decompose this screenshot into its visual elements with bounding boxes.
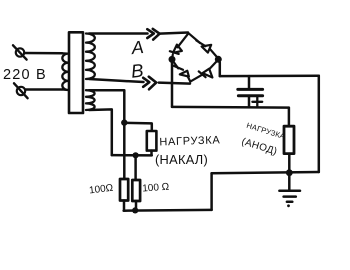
wire (y155 link) xyxy=(112,154,152,157)
wire (right branch down to R3) xyxy=(134,155,137,180)
wire A (upper secondary to bridge top) xyxy=(89,32,148,35)
secondary winding (upper) xyxy=(86,34,95,80)
junction (ground node) xyxy=(286,169,293,176)
ground xyxy=(279,173,300,208)
resistor R1 (heater load) xyxy=(147,131,157,151)
wire (R4 bottom lead) xyxy=(288,154,291,173)
resistor R3 (100 ohm right) xyxy=(132,180,140,201)
junction (bridge left node, DC+) xyxy=(169,56,176,63)
svg-text:НАГРУЗКА: НАГРУЗКА xyxy=(159,134,220,148)
wire (right node down) xyxy=(218,59,220,76)
junction (bottom rail) xyxy=(132,207,138,213)
junction (heater branch) xyxy=(121,119,127,125)
wire (R2 bottom lead) xyxy=(123,201,126,211)
svg-text:220 В: 220 В xyxy=(3,67,47,83)
wire (DC- rail top horizontal) xyxy=(220,75,319,78)
polarity mark + of C1 xyxy=(252,97,262,106)
wire B (upper secondary to bridge bottom) xyxy=(89,79,144,82)
junction (humdinger right branch) xyxy=(133,152,139,158)
primary winding xyxy=(62,53,68,90)
wire (right side vertical) xyxy=(318,76,321,172)
resistor R2 (100 ohm left) xyxy=(120,179,128,201)
wire (lower secondary bottom lead) xyxy=(89,109,112,155)
diode D3 (bottom-left, pointing to left node) xyxy=(172,60,190,82)
wire (DC+ rail horizontal) xyxy=(172,106,289,109)
svg-text:(НАКАЛ): (НАКАЛ) xyxy=(155,152,208,167)
secondary winding (lower) xyxy=(86,90,95,110)
wire (R3 bottom lead) xyxy=(135,201,138,211)
terminal X1 xyxy=(13,45,27,59)
wire (DC+ rail down to anode load) xyxy=(288,108,291,127)
wire (left winding leg down to R2) xyxy=(123,123,126,179)
capacitor C1 top lead xyxy=(248,76,251,89)
wire (R1 bottom lead) xyxy=(150,151,153,156)
diode D1 (top-left, pointing to left node) xyxy=(170,33,189,58)
wire (X1 to primary) xyxy=(24,52,62,55)
resistor R4 (anode load) xyxy=(284,126,294,153)
wire (heater bottom rail) xyxy=(124,209,212,212)
wire (branch to heater load) xyxy=(124,123,152,131)
wire (lower secondary top lead) xyxy=(89,90,124,122)
transformer core xyxy=(69,32,83,113)
svg-text:100 Ω: 100 Ω xyxy=(142,182,170,195)
capacitor C1 bottom lead xyxy=(248,96,251,108)
arrow on wire A xyxy=(147,29,159,40)
wire (ground rail horizontal) xyxy=(212,172,319,173)
svg-text:A: A xyxy=(130,37,145,58)
diode D2 (top-right, pointing to top node) xyxy=(189,33,218,58)
wire (X2 to primary) xyxy=(25,88,62,91)
terminal X2 xyxy=(14,83,28,98)
wire (left node down) xyxy=(171,59,174,107)
capacitor C1 xyxy=(238,89,263,95)
diode D4 (bottom-right, pointing to bottom node) xyxy=(190,60,218,82)
wire (down left of ground rail) xyxy=(210,173,213,210)
junction (bridge right node, DC-) xyxy=(215,56,222,63)
arrow on wire B xyxy=(143,77,156,90)
